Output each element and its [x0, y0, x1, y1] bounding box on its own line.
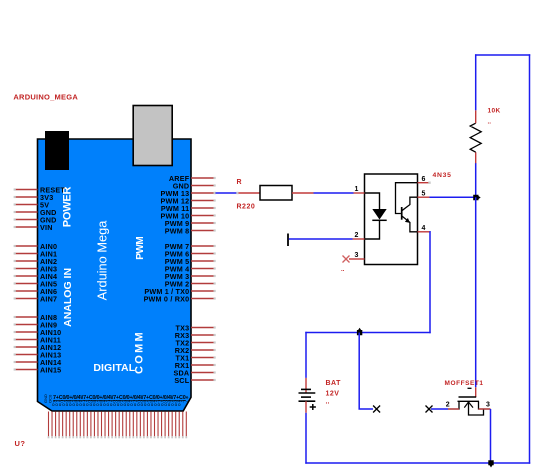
wire opto pin 4 down — [429, 232, 432, 333]
wire battery top (to node rail) — [305, 332, 307, 378]
svg-text:3: 3 — [486, 402, 490, 409]
opto LED cathode bar — [372, 219, 386, 221]
MOSFET channel bar — [458, 400, 480, 402]
pin VIN (left) — [14, 223, 53, 232]
svg-text:2: 2 — [446, 402, 450, 409]
svg-text:DIGITAL: DIGITAL — [93, 362, 135, 374]
wire battery top node rail — [305, 332, 430, 334]
svg-text:SCL: SCL — [174, 376, 189, 385]
MOSFET pin 2 stub red — [448, 408, 459, 410]
pin PWM 2 (right) — [165, 280, 216, 289]
svg-text:MOFFSET1: MOFFSET1 — [445, 380, 484, 387]
terminal bar (opto pin 2 wire end) — [287, 234, 289, 247]
pin TX1 (right) — [176, 354, 216, 363]
node PWM13 wire start — [214, 192, 216, 194]
pin PWM 6 (right) — [165, 250, 216, 259]
Arduino Mega board body — [38, 139, 192, 411]
svg-text:U?: U? — [15, 439, 26, 448]
pin 3V3 (left) — [14, 193, 54, 202]
pin PWM 12 (right) — [161, 197, 216, 206]
opto transistor base wire (pin 6) — [396, 183, 418, 214]
wire PWM13 to R (blue) — [216, 192, 237, 194]
svg-text:PWM: PWM — [135, 237, 146, 260]
pin AIN5 (left) — [14, 280, 58, 289]
junction B (source / bottom rail) — [488, 460, 493, 467]
pin AIN4 (left) — [14, 272, 58, 281]
MOSFET source leg (pin 3) — [479, 401, 491, 409]
wire battery bottom to bottom rail — [305, 413, 307, 464]
wire junction A to MOSFET drain — [475, 197, 477, 387]
pin AIN14 (left) — [14, 358, 62, 367]
opto pin 3 stub (NC) — [349, 252, 365, 259]
no-connect X on gate wire — [426, 406, 433, 413]
pin SCL (right) — [174, 376, 215, 385]
pin PWM 10 (right) — [161, 212, 216, 221]
svg-text:12V: 12V — [326, 391, 340, 398]
pin PWM 4 (right) — [165, 265, 216, 274]
node R left lead end — [236, 192, 238, 194]
wire R to opto pin 1 (blue) — [314, 192, 354, 194]
pin PWM 5 (right) — [165, 257, 216, 266]
pin AIN0 (left) — [14, 242, 58, 251]
pin PWM 3 (right) — [165, 272, 216, 281]
pin SDA (right) — [174, 369, 216, 378]
svg-text:AIN7: AIN7 — [40, 295, 57, 304]
opto transistor base bar — [401, 207, 403, 220]
pin AIN11 (left) — [14, 336, 61, 345]
MOSFET top bar — [459, 396, 477, 398]
pin AIN1 (left) — [14, 250, 58, 259]
svg-text:3: 3 — [355, 252, 359, 259]
opto pin 6 stub — [418, 176, 431, 184]
pin AIN7 (left) — [14, 295, 58, 304]
battery BAT top lead — [305, 378, 307, 393]
bottom header pins — [48, 412, 188, 439]
wire MOSFET gate to X — [431, 408, 448, 410]
MOSFET gate leg (pin 2) — [448, 401, 459, 409]
pin PWM 11 (right) — [161, 204, 216, 213]
svg-text:ARDUINO_MEGA: ARDUINO_MEGA — [13, 93, 78, 102]
svg-text:PWM 8: PWM 8 — [165, 227, 190, 236]
opto pin 4 stub — [418, 225, 430, 232]
pin AIN10 (left) — [14, 328, 62, 337]
wire MOSFET source down to bottom rail — [490, 409, 492, 463]
pin GND (left) — [14, 216, 57, 225]
battery BAT bottom lead — [305, 401, 307, 413]
pin AIN3 (left) — [14, 265, 58, 274]
resistor 10K bottom lead — [475, 152, 477, 163]
wire 10K branch vertical (junction up to resistor) — [475, 163, 477, 197]
pin TX3 (right) — [176, 324, 216, 333]
pin PWM 8 (right) — [165, 227, 216, 236]
battery BAT plates — [299, 389, 316, 401]
opto LED triangle — [372, 209, 386, 220]
svg-text:PWM 0 / RX0: PWM 0 / RX0 — [144, 295, 190, 304]
pin GND (left) — [14, 208, 57, 217]
wire bottom rail — [305, 462, 530, 464]
svg-text:ANALOG IN: ANALOG IN — [62, 268, 74, 327]
pin AIN8 (left) — [14, 313, 58, 322]
wire R left lead — [239, 192, 261, 194]
bottom header tiny silk text — [43, 394, 189, 407]
wire R right lead — [292, 192, 314, 194]
svg-text:2: 2 — [355, 232, 359, 239]
svg-text:COMM: COMM — [134, 330, 146, 374]
svg-text:4N35: 4N35 — [433, 172, 452, 179]
power jack — [45, 131, 69, 170]
pin AIN9 (left) — [14, 321, 58, 330]
pin PWM 1 / TX0 (right) — [144, 287, 215, 296]
opto transistor collector — [402, 197, 418, 211]
junction A (opto pin5 / 10K / MOSFET drain) — [473, 195, 481, 200]
pin AIN15 (left) — [14, 366, 62, 375]
wire opto pin 5 to junction A — [430, 196, 476, 198]
junction C (battery node) — [357, 328, 362, 336]
pin AIN6 (left) — [14, 287, 58, 296]
wire top rail — [475, 54, 530, 56]
svg-text:6: 6 — [422, 176, 426, 183]
MOSFET pin 3 stub red — [479, 408, 491, 410]
svg-text:R220: R220 — [237, 204, 256, 211]
battery plus sign — [310, 404, 316, 410]
opto pin 1 stub — [354, 186, 365, 193]
no-connect X on pin 3 — [343, 256, 350, 263]
pin AIN13 (left) — [14, 351, 62, 360]
opto transistor emitter with arrow — [402, 216, 418, 232]
pin AIN12 (left) — [14, 343, 62, 352]
opto pin 2 stub — [353, 232, 365, 239]
svg-text:..: .. — [326, 399, 330, 406]
wire right rail — [529, 54, 531, 463]
pin RX2 (right) — [175, 346, 216, 355]
svg-text:oooooooooooooooooooooooooooooo: oooooooooooooooooooooooooooooooooooooo — [52, 402, 181, 407]
svg-text:BAT: BAT — [326, 380, 342, 387]
pin RX3 (right) — [175, 331, 216, 340]
pin PWM 0 / RX0 (right) — [144, 295, 216, 304]
pin TX2 (right) — [176, 339, 216, 348]
dangling wire from junction C — [359, 333, 373, 410]
resistor 10K top lead — [475, 110, 477, 123]
USB connector — [133, 106, 172, 166]
opto pin 5 stub — [418, 191, 430, 198]
svg-text:10K: 10K — [488, 108, 501, 115]
pin AIN2 (left) — [14, 257, 58, 266]
wire 10K to top rail — [475, 54, 477, 110]
pin RX1 (right) — [175, 361, 216, 370]
pin PWM 13 (right) — [161, 189, 190, 198]
svg-text:5: 5 — [422, 191, 426, 198]
opto LED cathode wire — [365, 220, 380, 239]
opto LED anode wire — [365, 193, 380, 209]
op-to-coupler U 4N35 body — [365, 174, 418, 265]
svg-text:VIN: VIN — [40, 223, 53, 232]
svg-text:1: 1 — [355, 186, 359, 193]
svg-text:R: R — [237, 179, 243, 186]
pin AREF (right) — [169, 174, 216, 183]
pin 5V (left) — [14, 201, 50, 210]
no-connect X on dangling wire — [373, 406, 380, 413]
pin PWM 9 (right) — [165, 219, 216, 228]
MOSFET substrate dash — [468, 387, 472, 389]
pin RESET (left) — [14, 186, 66, 195]
svg-text:4: 4 — [422, 225, 426, 232]
pin GND (right) — [173, 182, 216, 191]
pin PWM 7 (right) — [165, 242, 216, 251]
MOSFET body arrow — [464, 402, 473, 408]
wire PWM13 stub — [191, 192, 214, 194]
MOSFET drain stub — [475, 387, 477, 397]
MOSFET body loop — [469, 402, 484, 415]
wire terminal to opto pin 2 — [289, 238, 353, 240]
resistor 10K zigzag — [470, 123, 481, 152]
svg-text:AIN15: AIN15 — [40, 366, 61, 375]
resistor R (R220) body — [260, 186, 292, 201]
svg-text:..: .. — [488, 119, 492, 126]
svg-text:Arduino Mega: Arduino Mega — [94, 220, 109, 301]
svg-text:..: .. — [341, 267, 345, 273]
